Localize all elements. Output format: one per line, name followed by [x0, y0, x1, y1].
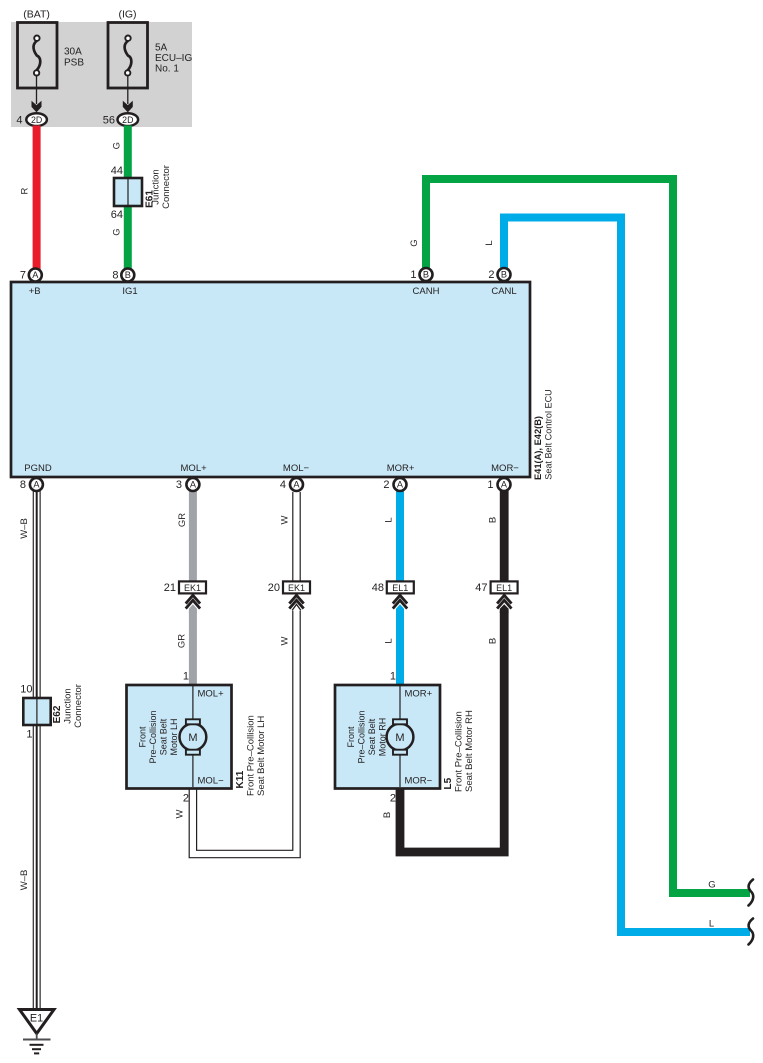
svg-text:B: B [125, 270, 131, 280]
wire fuse F2 to connector [127, 75, 129, 104]
svg-text:A: A [32, 270, 39, 280]
svg-text:MOR+: MOR+ [387, 463, 415, 474]
svg-text:CANL: CANL [491, 286, 516, 297]
svg-text:1: 1 [390, 671, 396, 683]
svg-text:PSB: PSB [64, 58, 84, 69]
svg-text:K11: K11 [235, 770, 246, 788]
svg-text:2: 2 [390, 793, 396, 805]
fuse F1 element [34, 36, 41, 76]
svg-text:Seat Belt: Seat Belt [367, 718, 377, 755]
svg-text:Seat Belt Control ECU: Seat Belt Control ECU [544, 389, 554, 479]
svg-text:4: 4 [16, 114, 22, 126]
svg-text:L5: L5 [443, 777, 454, 789]
svg-text:Seat Belt Motor RH: Seat Belt Motor RH [464, 710, 475, 792]
internal wire L5 [399, 686, 401, 721]
svg-text:Front: Front [346, 726, 356, 748]
svg-text:+B: +B [29, 286, 41, 297]
wire L (blue) MOR+ [396, 490, 404, 583]
connector EK1 pin 21 [179, 581, 206, 593]
svg-text:Seat Belt: Seat Belt [158, 718, 168, 755]
svg-text:W: W [280, 515, 291, 524]
svg-text:MOL−: MOL− [283, 463, 310, 474]
svg-text:GR: GR [177, 513, 188, 527]
ground E1 [20, 1010, 55, 1034]
svg-text:3: 3 [176, 479, 182, 491]
motor K11 box [127, 685, 232, 789]
svg-text:A: A [397, 480, 404, 490]
svg-text:L: L [484, 240, 495, 245]
svg-text:B: B [488, 638, 499, 644]
svg-text:GR: GR [177, 634, 188, 648]
svg-text:(IG): (IG) [118, 9, 136, 21]
svg-text:Pre–Collision: Pre–Collision [357, 710, 367, 763]
svg-text:No. 1: No. 1 [155, 64, 179, 75]
svg-text:Junction: Junction [63, 688, 74, 723]
fuse F2 element [125, 36, 132, 76]
svg-text:G: G [409, 239, 420, 246]
ECU bottom pin 1 A (MOR-) [498, 478, 511, 491]
svg-text:1: 1 [410, 269, 416, 281]
svg-text:B: B [488, 517, 499, 523]
svg-text:E41(A), E42(B): E41(A), E42(B) [533, 416, 543, 480]
svg-text:21: 21 [164, 582, 176, 594]
pin 8 B (IG1) [121, 269, 134, 282]
wire CANL (blue) [504, 218, 750, 933]
junction connector E62 [23, 698, 50, 725]
svg-text:2D: 2D [122, 115, 133, 125]
svg-text:G: G [112, 228, 123, 235]
svg-text:A: A [293, 480, 300, 490]
svg-text:48: 48 [372, 582, 384, 594]
svg-text:Motor RH: Motor RH [377, 718, 387, 757]
motor symbol K11 [180, 724, 207, 751]
break symbol blue wire [749, 919, 754, 945]
svg-text:44: 44 [111, 165, 123, 177]
svg-text:56: 56 [103, 114, 115, 126]
svg-text:MOL+: MOL+ [181, 463, 208, 474]
connector EL1 pin 47 [491, 581, 518, 593]
wire G (green) fuse to IG1 [124, 126, 132, 271]
internal wire K11 [192, 686, 194, 721]
svg-text:B: B [423, 270, 429, 280]
svg-text:10: 10 [20, 684, 32, 696]
svg-text:Pre–Collision: Pre–Collision [148, 710, 158, 763]
ECU bottom pin 2 A (MOR+) [394, 478, 407, 491]
svg-text:20: 20 [268, 582, 280, 594]
svg-text:W: W [175, 809, 186, 818]
svg-text:CANH: CANH [413, 286, 440, 297]
break symbol green wire [749, 880, 754, 906]
svg-text:W–B: W–B [19, 518, 30, 539]
junction connector E61 [114, 178, 142, 206]
svg-text:EL1: EL1 [496, 583, 512, 593]
svg-text:(BAT): (BAT) [23, 9, 50, 21]
svg-text:2D: 2D [31, 115, 42, 125]
svg-text:30A: 30A [64, 47, 82, 58]
svg-text:1: 1 [487, 479, 493, 491]
svg-text:Connector: Connector [161, 165, 172, 209]
svg-text:MOR−: MOR− [491, 463, 519, 474]
svg-text:EK1: EK1 [288, 583, 305, 593]
svg-text:MOR−: MOR− [405, 776, 433, 787]
wire GR (gray) MOL+ [189, 490, 197, 583]
ECU bottom pin 4 A (MOL-) [290, 478, 303, 491]
svg-text:L: L [384, 638, 395, 643]
motor symbol L5 [387, 724, 414, 751]
svg-text:IG1: IG1 [122, 286, 137, 297]
svg-text:G: G [112, 142, 123, 149]
svg-text:Front Pre–Collision: Front Pre–Collision [454, 711, 465, 792]
pin 2 B (CANL) [498, 268, 511, 281]
svg-text:L: L [384, 517, 395, 522]
svg-text:W–B: W–B [19, 870, 30, 891]
svg-text:2: 2 [183, 793, 189, 805]
connector 2D pin 4 [26, 113, 47, 126]
svg-text:5A: 5A [155, 43, 168, 54]
svg-text:8: 8 [20, 479, 26, 491]
svg-text:L: L [709, 919, 714, 930]
svg-text:8: 8 [112, 270, 118, 282]
connector EK1 pin 20 [283, 581, 310, 593]
pin 1 B (CANH) [420, 268, 433, 281]
fuse F1 30A PSB box [18, 23, 58, 89]
svg-text:Connector: Connector [73, 684, 84, 728]
ECU bottom pin 3 A (MOL+) [186, 478, 199, 491]
svg-text:R: R [20, 187, 31, 194]
svg-text:7: 7 [20, 270, 26, 282]
svg-text:Seat Belt Motor LH: Seat Belt Motor LH [256, 716, 267, 796]
svg-text:M: M [188, 732, 197, 744]
svg-text:EK1: EK1 [184, 583, 201, 593]
wire W (white) MOL- loop [193, 490, 301, 855]
fuse F2 5A ECU-IG No.1 box [108, 23, 148, 89]
wire W-B PGND to ground [33, 488, 41, 1010]
svg-text:4: 4 [280, 479, 286, 491]
svg-text:B: B [501, 270, 507, 280]
svg-text:MOL−: MOL− [198, 776, 225, 787]
svg-text:Junction: Junction [151, 169, 162, 204]
ECU bottom pin 8 A (PGND) [30, 478, 43, 491]
wire B (black) MOR- loop [500, 490, 509, 583]
Seat Belt Control ECU box [11, 282, 530, 477]
svg-text:Motor LH: Motor LH [169, 718, 179, 755]
wire R (red) fuse to +B [33, 126, 41, 271]
svg-text:E62: E62 [52, 705, 63, 723]
svg-text:47: 47 [475, 582, 487, 594]
fuse panel (gray block) [11, 22, 192, 127]
svg-text:EL1: EL1 [392, 583, 408, 593]
motor K11 internal name [138, 710, 179, 763]
svg-text:Front Pre–Collision: Front Pre–Collision [246, 715, 257, 796]
svg-text:G: G [708, 880, 715, 891]
wire CANH (green) [426, 179, 750, 893]
pin 7 A (+B) [29, 269, 42, 282]
svg-text:A: A [501, 480, 508, 490]
svg-text:2: 2 [488, 269, 494, 281]
svg-text:2: 2 [383, 479, 389, 491]
arrow into connector 2D pin 4 [32, 101, 42, 113]
wire fuse F1 to connector [36, 75, 38, 104]
svg-text:A: A [190, 480, 197, 490]
svg-text:A: A [33, 480, 40, 490]
connector EL1 pin 48 [387, 581, 414, 593]
svg-text:E1: E1 [30, 1013, 43, 1025]
svg-text:Front: Front [138, 726, 148, 748]
svg-text:W: W [280, 636, 291, 645]
svg-text:64: 64 [111, 209, 123, 221]
svg-text:1: 1 [26, 729, 32, 741]
connector 2D pin 56 [118, 113, 139, 126]
svg-text:ECU–IG: ECU–IG [155, 53, 192, 64]
svg-text:PGND: PGND [24, 463, 52, 474]
svg-text:M: M [395, 732, 404, 744]
svg-text:MOL+: MOL+ [198, 689, 225, 700]
svg-text:MOR+: MOR+ [405, 689, 433, 700]
svg-text:1: 1 [183, 671, 189, 683]
arrow into connector 2D pin 56 [123, 101, 133, 113]
motor L5 internal name [346, 710, 387, 763]
motor L5 box [335, 685, 440, 789]
svg-text:B: B [382, 812, 393, 818]
